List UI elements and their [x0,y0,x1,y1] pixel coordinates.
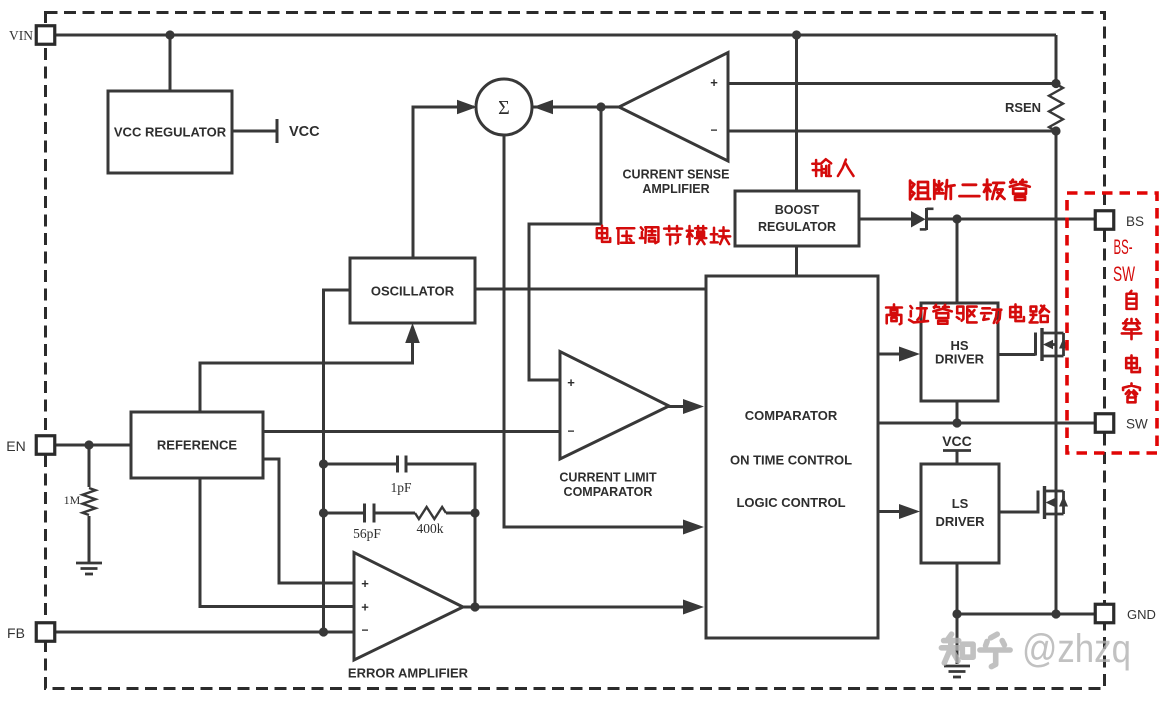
wire SW line comparator to SW pin [878,422,1096,425]
block BOOST REGULATOR [735,191,859,246]
transistor Q1 high-side FET [1034,333,1037,356]
wire EN junction down to resistor [88,445,91,487]
wire VCC bar to LS driver [956,451,959,465]
diode D1 blocking (schottky) [911,211,926,228]
block HS DRIVER [921,303,998,401]
wire resistor to ground [88,516,91,562]
node VIN rail junction at VCC regulator [165,30,174,39]
block VCC REGULATOR [108,91,232,173]
wire CSA minus input from RSEN bottom [728,130,1056,133]
svg-text:Σ: Σ [498,97,510,119]
svg-text:REGULATOR: REGULATOR [758,220,836,234]
wire FB pin to error amp minus input [55,631,354,634]
wire 56pF branch [324,512,364,515]
resistor R1 1M [83,488,96,515]
node EN junction [84,440,93,449]
node SW junction at HS driver [952,418,961,427]
wire comparator to HS driver [878,353,900,356]
wire junction down and over to current limit comparator plus input [529,107,601,380]
svg-text:DRIVER: DRIVER [935,352,985,367]
summing node sigma circle [476,79,532,135]
annotation 阻断二极管 (blocking diode) [910,181,930,200]
svg-text:VCC: VCC [289,124,320,140]
wire BOOST regulator feed [795,35,798,191]
svg-text:VCC REGULATOR: VCC REGULATOR [114,125,227,140]
svg-text:56pF: 56pF [353,526,381,541]
svg-text:RSEN: RSEN [1005,100,1041,115]
wire 1pF cap to feedback vertical [408,464,476,607]
arrowhead into HS driver [899,347,920,362]
pin SW [1095,414,1114,433]
node FB junction with compensation branch [319,627,328,636]
op-amp U3 error amplifier [354,553,463,661]
block OSCILLATOR [350,258,475,323]
svg-text:+: + [361,600,369,615]
arrowhead into comparator ON-time input [683,520,704,535]
resistor RSEN [1049,84,1063,131]
wire comparator to LS driver [878,510,900,513]
pin BS [1095,211,1114,230]
wire VCC regulator output [232,130,277,133]
block COMPARATOR / ON TIME CONTROL / LOGIC CONTROL [706,276,878,638]
pin FB [36,623,55,642]
wire VIN rail [55,34,1056,37]
svg-text:AMPLIFIER: AMPLIFIER [642,182,709,196]
svg-text:1pF: 1pF [390,480,412,495]
block REFERENCE [131,412,263,478]
node BS junction [952,214,961,223]
node LS driver ground junction [952,609,961,618]
node RSEN top junction [1051,79,1060,88]
svg-text:CURRENT SENSE: CURRENT SENSE [623,168,730,182]
node compensation junction upper [319,459,328,468]
svg-text:GND: GND [1127,607,1156,622]
wire current sense amp to summing node [533,106,601,109]
ground below 1M resistor [76,562,102,565]
svg-text:COMPARATOR: COMPARATOR [564,485,653,499]
wire BS junction down to HS driver [956,219,959,303]
svg-text:+: + [361,576,369,591]
arrowhead into summing node right [533,100,553,115]
wire reference bottom output to error amp second plus input [200,478,354,607]
capacitor C2 56pF [363,504,366,523]
watermark zhihu logo text [941,627,1131,671]
wire HS driver to FET gate [998,353,1036,356]
wire EN pin to reference [55,444,131,447]
wire 1pF branch [324,463,397,466]
wire compensation vertical from oscillator input [324,290,351,632]
svg-text:1M: 1M [64,493,81,507]
annotation 高边管驱动电路 (high-side driver circuit) [886,304,902,324]
wire VIN rail drop to RSEN [1055,35,1058,84]
pin GND [1095,604,1114,623]
resistor R2 400k [415,507,446,519]
svg-text:BS: BS [1126,214,1144,229]
annotation 输入 (input) [812,159,831,176]
svg-text:−: − [710,123,717,137]
svg-text:CURRENT LIMIT: CURRENT LIMIT [559,471,657,485]
svg-text:ON TIME CONTROL: ON TIME CONTROL [730,453,852,468]
wire HS driver bottom to SW rail [956,401,959,423]
node compensation junction lower [319,508,328,517]
svg-text:REFERENCE: REFERENCE [157,438,238,453]
node RSEN bottom junction [1051,126,1060,135]
svg-text:OSCILLATOR: OSCILLATOR [371,284,455,299]
node feedback junction mid [470,508,479,517]
svg-text:−: − [567,424,574,438]
wire CSA plus input from RSEN top [728,82,1056,85]
svg-text:FB: FB [7,625,25,641]
svg-text:BS-: BS- [1114,235,1133,259]
svg-text:400k: 400k [417,521,444,536]
wire reference output to current limit comparator minus input [263,430,560,433]
wire 56pF cap to 400k resistor [375,512,415,515]
wire LS driver bottom to ground rail [956,563,959,664]
svg-text:+: + [710,75,718,90]
svg-text:+: + [567,375,575,390]
block LS DRIVER [921,464,999,563]
svg-text:DRIVER: DRIVER [935,514,985,529]
svg-text:@zhzq: @zhzq [1022,627,1131,671]
wire LS driver to FET gate [999,511,1038,514]
wire 400k to feedback vertical [446,512,475,515]
wire boost regulator output to blocking diode [859,218,911,221]
node error amp output junction [470,602,479,611]
wire summing node output down to comparator [504,135,684,527]
transistor Q2 low-side FET [1037,491,1040,514]
wire RSEN to high-side FET drain rail [1055,131,1058,614]
arrowhead into comparator from current limit [683,399,704,414]
arrowhead into summing node left [457,100,477,115]
arrowhead into comparator logic input [683,600,704,615]
wire oscillator output to comparator [475,288,706,291]
wire ground rail to GND pin [957,613,1096,616]
red dashed highlight box BS-SW bootstrap capacitor [1067,193,1157,453]
capacitor C1 1pF [396,456,399,473]
svg-text:BOOST: BOOST [775,203,820,217]
wire boost regulator to comparator top [795,246,798,276]
svg-text:EN: EN [6,438,25,454]
op-amp U2 current limit comparator [560,352,669,460]
svg-text:LOGIC CONTROL: LOGIC CONTROL [736,495,845,510]
op-amp U1 current sense amplifier [619,53,728,162]
svg-text:ERROR AMPLIFIER: ERROR AMPLIFIER [348,666,469,681]
svg-text:VIN: VIN [9,28,33,43]
svg-text:−: − [361,623,368,637]
ground main power ground [944,665,970,668]
wire reference output to error amp first plus input [263,459,354,583]
pin VIN [36,26,55,45]
wire error amp output to comparator [462,606,684,609]
annotation 电压调节模块 (voltage regulation module) [597,226,610,242]
pin EN [36,436,55,455]
node FET source ground junction [1051,609,1060,618]
arrowhead into LS driver [899,504,920,519]
arrowhead into oscillator bottom [405,323,420,343]
wire diode to BS pin [927,218,1096,221]
node VIN rail junction at boost regulator [792,30,801,39]
wire CSA apex to junction [601,106,620,109]
node junction below CSA apex [596,102,605,111]
wire oscillator to summing node [413,107,474,258]
wire reference to oscillator sync [200,342,413,412]
wire VCC regulator feed [169,35,172,91]
svg-text:VCC: VCC [942,433,972,449]
svg-text:SW: SW [1113,262,1135,286]
node VCC terminal bar [276,119,279,143]
svg-text:LS: LS [952,496,969,511]
svg-text:COMPARATOR: COMPARATOR [745,408,838,423]
wire current limit comparator output [668,405,684,408]
svg-text:SW: SW [1126,417,1148,432]
